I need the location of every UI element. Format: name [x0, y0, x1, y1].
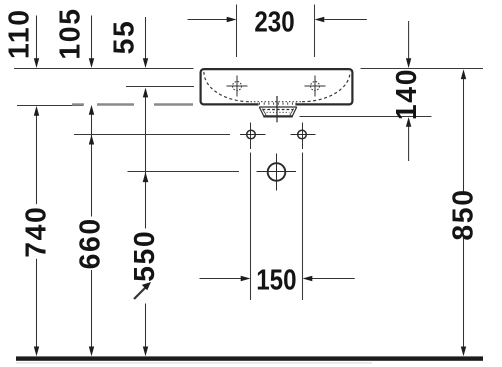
svg-text:110: 110: [3, 8, 35, 59]
svg-text:150: 150: [256, 263, 296, 295]
svg-text:550: 550: [129, 230, 161, 282]
svg-text:230: 230: [254, 6, 294, 38]
svg-text:660: 660: [75, 217, 107, 269]
svg-text:105: 105: [55, 7, 87, 59]
svg-text:850: 850: [448, 188, 480, 240]
svg-text:140: 140: [391, 68, 423, 120]
svg-text:740: 740: [21, 206, 53, 258]
svg-text:55: 55: [108, 20, 140, 55]
